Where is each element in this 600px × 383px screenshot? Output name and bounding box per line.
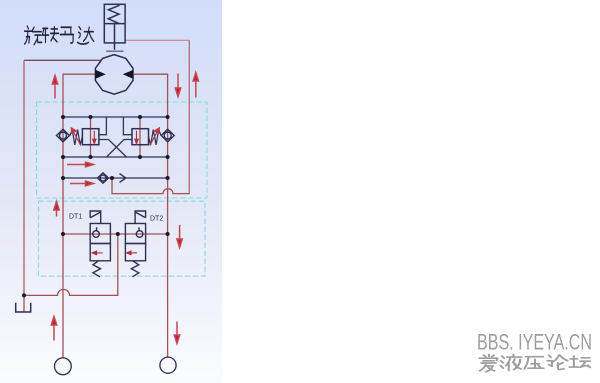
annotation arrow up (far right top)	[193, 73, 198, 98]
wire: tank line top horizontal	[24, 59, 101, 61]
wire: pilot to check line with hop	[112, 178, 189, 194]
tank symbol	[16, 303, 31, 312]
wire: pilot cross right	[107, 140, 133, 158]
wire: left relief valve branch	[90, 117, 92, 157]
wire: motor left port to valve block	[63, 74, 95, 358]
wire: check valve rail	[63, 177, 168, 179]
port A circle	[55, 358, 72, 375]
relief valve RV2	[132, 129, 161, 145]
wire: right relief valve branch	[139, 117, 141, 157]
wire: relief block top rail	[63, 116, 168, 118]
wire: motor right port down right side	[134, 74, 168, 357]
wire: left relief bypass loop	[99, 117, 106, 135]
chevron	[120, 174, 126, 183]
wire: port line through solenoid valves	[63, 233, 168, 235]
wire: brake pilot line	[125, 39, 189, 41]
valve block enclosure (lower dashed)	[39, 201, 206, 276]
adjust arrow RV1	[71, 128, 81, 146]
check valve CV2	[161, 129, 174, 142]
annotation arrow down (right of motor)	[175, 74, 180, 97]
internal flow arrow DT2	[126, 251, 137, 255]
svg-text:BBS. IYEYA.CN: BBS. IYEYA.CN	[477, 330, 592, 355]
wire: right relief bypass loop	[123, 117, 132, 135]
internal flow arrow RV1	[93, 131, 96, 144]
port B circle	[160, 357, 176, 373]
annotation arrow up (above port A)	[51, 317, 56, 341]
junction at tank branch	[22, 293, 26, 297]
valve block enclosure (upper dashed)	[37, 102, 208, 198]
wire: brake pilot line vertical	[188, 40, 190, 193]
check valve CV1	[57, 129, 70, 142]
annotation arrow right (lower)	[70, 181, 94, 186]
relief valve RV1	[70, 129, 99, 145]
solenoid valve DT2	[125, 211, 145, 277]
internal flow arrow DT1	[92, 251, 103, 255]
annotation arrow up (in lower block)	[54, 202, 59, 217]
brake cylinder Z1	[104, 4, 125, 51]
junctions on bottom rail	[61, 155, 170, 159]
annotation arrow up (left of motor)	[52, 76, 57, 99]
solenoid valve DT1	[90, 211, 110, 277]
annotation arrow down (above port B)	[174, 322, 179, 344]
wire: pilot cross left	[99, 140, 127, 158]
annotation arrow right (upper)	[67, 162, 94, 167]
wire: relief block bottom rail	[63, 156, 168, 158]
motor triangle right	[123, 70, 134, 79]
junctions on top rail	[61, 115, 170, 119]
title 旋转马达 (hand-drawn strokes)	[24, 26, 93, 44]
junctions on solenoid rail	[61, 232, 170, 236]
svg-text:DT2: DT2	[150, 216, 163, 223]
watermark 爱液压论坛 (hand-drawn strokes)	[479, 355, 590, 372]
internal flow arrow RV2	[135, 131, 138, 144]
wire: solenoid center drain	[24, 234, 118, 312]
adjust arrow RV2	[150, 128, 160, 146]
hydraulic motor M1	[95, 55, 133, 95]
junctions on check valve rail	[61, 176, 170, 180]
check valve CV3 (makeup line)	[98, 173, 126, 183]
annotation arrow down (in lower block)	[177, 225, 182, 248]
wire: tank line far-left vertical	[23, 60, 25, 295]
background panel	[0, 0, 222, 383]
motor triangle left	[95, 70, 106, 79]
svg-text:DT1: DT1	[69, 213, 82, 220]
